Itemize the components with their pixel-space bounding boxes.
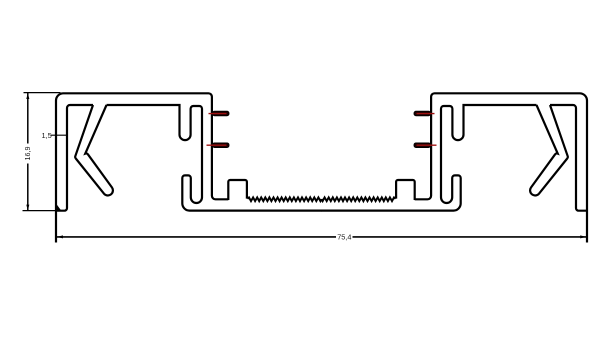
svg-text:75,4: 75,4 <box>337 233 351 242</box>
dimension 75,4 left extension line <box>55 212 57 243</box>
dimension 16,9 bottom arrowhead <box>26 205 29 211</box>
label 75,4 backing <box>336 233 353 242</box>
dimension 16,9 top extension tick <box>24 92 61 94</box>
dimension 75,4 left arrowhead <box>57 235 63 238</box>
svg-text:1,5: 1,5 <box>42 131 52 140</box>
dimension 75,4 right arrowhead <box>580 235 586 238</box>
leader line for 1,5 <box>51 134 67 136</box>
dimension 16,9 bottom extension tick <box>23 210 61 212</box>
right half of extrusion profile (mirrored) <box>321 93 587 242</box>
svg-text:16,9: 16,9 <box>23 147 32 161</box>
dimension 75,4 right extension line <box>586 212 588 243</box>
dimension 75,4 line <box>57 236 587 238</box>
left half of extrusion profile <box>56 93 322 242</box>
corner tick at profile bottom-left <box>56 204 61 210</box>
dimension 16,9 vertical line <box>27 93 29 211</box>
dimension 16,9 top arrowhead <box>26 93 29 99</box>
